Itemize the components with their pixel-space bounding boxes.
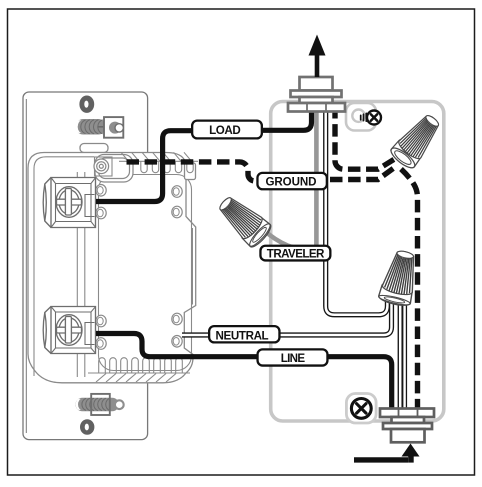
box screw tab bottom [346, 394, 376, 424]
label LINE [258, 349, 328, 365]
top bump [80, 144, 108, 153]
svg-text:NEUTRAL: NEUTRAL [216, 329, 269, 342]
wire TRAVELER gray: top cable clamp down into traveler wire nut [265, 106, 317, 250]
svg-text:GROUND: GROUND [266, 175, 317, 188]
terminal block top [43, 178, 95, 228]
label LOAD [192, 121, 262, 139]
wire nut middle-right (neutral splice) [378, 248, 422, 308]
hanging loops [141, 161, 147, 172]
body outline [28, 153, 196, 383]
label TRAVELER [260, 246, 330, 261]
ear tab right [185, 163, 196, 180]
switch body [28, 144, 196, 383]
svg-text:TRAVELER: TRAVELER [267, 247, 325, 260]
wire entry holes (8 rings) [96, 185, 182, 350]
wire nut traveler [213, 191, 273, 250]
svg-text:LINE: LINE [281, 352, 306, 365]
wire GROUND dashed: switch ground screw to GROUND label [127, 162, 259, 181]
top vent slats [119, 152, 198, 172]
arrow up (cable to fixture) [309, 35, 326, 78]
svg-text:LOAD: LOAD [209, 124, 241, 137]
wire LINE: LINE label down to bottom cable clamp [290, 357, 392, 410]
top cable clamp [288, 77, 345, 112]
plate bottom oval hole [80, 419, 94, 435]
inner left edge [34, 157, 94, 376]
wire nut top-right (ground splice) [388, 109, 445, 171]
screw with X top-right [361, 111, 381, 125]
wire LOAD: switch terminal to LOAD label [96, 131, 227, 202]
bottom cable clamp [380, 409, 434, 443]
wire white: top cable clamp down, U-turn into middle wire nut [326, 106, 388, 315]
yoke lines [76, 172, 78, 377]
bottom scallops [88, 358, 190, 382]
electrical box [271, 102, 444, 422]
wire GROUND dashed: GROUND label to wire nut [330, 166, 397, 180]
plate top screw [75, 117, 123, 138]
wire LOAD: LOAD label up to top cable clamp [227, 105, 312, 130]
plate bottom screw [76, 394, 125, 415]
label GROUND [257, 173, 326, 189]
wire GROUND dashed: wire nut down to bottom cable clamp [401, 169, 418, 410]
terminal block bottom [43, 307, 95, 354]
arrow in (supply cable) [354, 444, 420, 463]
wire NEUTRAL: switch to middle wire nut [182, 301, 392, 335]
label NEUTRAL [209, 326, 279, 342]
wire GROUND dashed: top cable clamp down and right to wire nut [335, 106, 396, 169]
inner back plate [99, 175, 192, 371]
plate top oval hole [79, 96, 94, 113]
ground terminal housing [94, 155, 133, 183]
box screw tab top-right [346, 103, 376, 131]
screw with X bottom [351, 399, 371, 419]
inner right edge [192, 228, 194, 305]
wires white: middle wire nut down to bottom cable clamp [400, 300, 404, 410]
wall plate [23, 92, 148, 440]
wire LINE: switch terminal to LINE label [96, 334, 290, 357]
